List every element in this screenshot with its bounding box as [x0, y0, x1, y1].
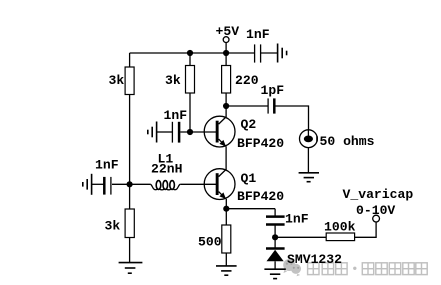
- svg-text:V_varicap: V_varicap: [343, 187, 414, 202]
- V_varicap terminal circle: [373, 215, 380, 222]
- wire input cap to input node: [112, 183, 130, 185]
- svg-text:Q1: Q1: [241, 171, 257, 186]
- svg-text:SMV1232: SMV1232: [287, 252, 342, 267]
- capacitor 1nF Q2 base bypass plates: [172, 122, 179, 143]
- resistor 3k middle (Q2 base bias): [186, 66, 195, 94]
- wire input node to L1: [130, 183, 151, 185]
- wire port to ground: [307, 148, 309, 173]
- resistor 500 emitter: [222, 225, 231, 253]
- wire +5V stub: [225, 43, 227, 54]
- ground left of Q2 bypass cap: [148, 122, 157, 143]
- inductor L1 22nH: [150, 181, 180, 190]
- wire top supply rail: [130, 52, 254, 54]
- wire R3 top stub: [225, 53, 227, 66]
- resistor 220 (Q2 collector load): [222, 66, 231, 94]
- node dot Q1 emitter: [223, 206, 229, 212]
- wire bypass cap to Q2 base: [180, 131, 216, 133]
- ground below lower-left 3k: [119, 263, 143, 274]
- node dot varactor: [272, 234, 278, 240]
- svg-text:3k: 3k: [105, 219, 121, 234]
- wire emitter node down to 500: [225, 209, 227, 225]
- svg-text:3k: 3k: [109, 73, 125, 88]
- node dot rail/R2: [187, 50, 193, 56]
- svg-text:+5V: +5V: [216, 24, 240, 39]
- capacitor 1pF output plates: [268, 98, 274, 113]
- capacitor 1nF supply decoupling plates: [255, 44, 261, 62]
- watermark icon chat bubbles: [283, 259, 301, 276]
- svg-text:500: 500: [198, 235, 222, 250]
- wire R3 bottom to collector node: [225, 93, 227, 106]
- svg-text:1nF: 1nF: [164, 108, 188, 123]
- wire stub down to varactor coupling cap: [274, 209, 276, 216]
- varactor diode SMV1232: [266, 249, 285, 262]
- svg-text:220: 220: [235, 73, 259, 88]
- resistor 3k lower-left (Q1 base bias to ground): [125, 209, 134, 238]
- wire collector node to 1pF: [226, 105, 268, 107]
- wire cap to varactor node: [274, 226, 276, 238]
- wire R4 to ground: [129, 238, 131, 263]
- wire decoupling cap to ground: [261, 52, 278, 54]
- wire ground to bypass cap: [157, 131, 173, 133]
- wire R2 top stub: [189, 53, 191, 66]
- transistor Q2 BFP420: [204, 116, 235, 147]
- wire varactor node right to 100k: [275, 236, 326, 238]
- svg-text:BFP420: BFP420: [237, 189, 284, 204]
- svg-text:50 ohms: 50 ohms: [320, 134, 375, 149]
- svg-text:1nF: 1nF: [95, 158, 119, 173]
- svg-text:22nH: 22nH: [151, 162, 182, 177]
- wire R1 bottom to input node: [129, 95, 131, 185]
- resistor 3k upper-left (Q1 base bias to +5V): [125, 67, 134, 95]
- +5V terminal circle: [223, 37, 229, 43]
- watermark text 公众号 · 射频通信链 (approximated glyph blocks): [308, 263, 428, 275]
- svg-text:0-10V: 0-10V: [356, 203, 395, 218]
- ground below varactor: [264, 269, 285, 278]
- wire varactor node to diode: [274, 237, 276, 247]
- ground right of decoupling cap: [278, 44, 287, 63]
- ground below 500: [216, 266, 237, 275]
- svg-text:BFP420: BFP420: [237, 136, 284, 151]
- wire 1pF to output corner: [276, 106, 309, 131]
- svg-text:1nF: 1nF: [246, 27, 270, 42]
- node dot rail/+5V/R3: [223, 50, 229, 56]
- wire emitter node right to 1nF: [226, 208, 275, 210]
- wire 500 to ground: [225, 253, 227, 266]
- svg-text:100k: 100k: [324, 220, 356, 235]
- node dot collector/1pF: [223, 103, 229, 109]
- node dot Q2 base: [187, 129, 193, 135]
- ground below port: [299, 173, 319, 182]
- resistor 100k tuning: [326, 233, 354, 241]
- wire R2 bottom to Q2 base node: [189, 93, 191, 132]
- node dot input: [127, 181, 133, 187]
- svg-text:Q2: Q2: [241, 117, 257, 132]
- svg-text:3k: 3k: [165, 73, 181, 88]
- capacitor 1nF varactor coupling plates: [266, 217, 285, 225]
- wire Q1 emitter stub: [225, 199, 227, 209]
- wire Q2 emitter to Q1 collector: [225, 146, 227, 170]
- capacitor 1nF input plates: [104, 177, 111, 195]
- transistor Q1 BFP420: [204, 169, 235, 200]
- wire left 3k bottom chain: input node to R4: [129, 184, 131, 209]
- svg-text:1nF: 1nF: [285, 212, 309, 227]
- wire 100k to varicap terminal corner: [355, 222, 377, 237]
- port 50 ohms circle: [300, 130, 318, 148]
- wire varactor to ground: [274, 261, 276, 269]
- ground left of input cap: [83, 174, 92, 195]
- wire Q2 collector stub: [225, 106, 227, 117]
- wire input ground to cap: [92, 183, 104, 185]
- wire R1 top stub: [129, 53, 131, 67]
- svg-text:1pF: 1pF: [261, 83, 285, 98]
- wire L1 to Q1 base: [180, 183, 216, 185]
